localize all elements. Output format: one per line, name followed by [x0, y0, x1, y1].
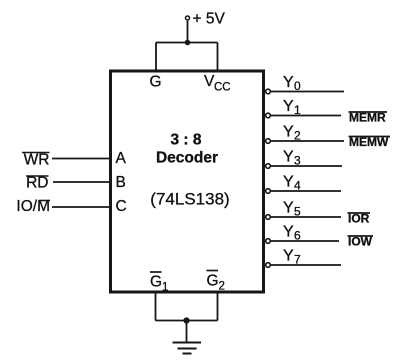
svg-text:Y: Y [283, 224, 294, 241]
output Y6 bubble [266, 239, 271, 244]
svg-text:Decoder: Decoder [156, 150, 218, 167]
wire Y4 [271, 190, 341, 192]
output Y0 bubble [266, 89, 271, 94]
svg-text:Y: Y [283, 248, 294, 265]
svg-text:+ 5V: + 5V [193, 11, 226, 28]
wire supply terminal to junction [187, 21, 189, 43]
svg-text:WR: WR [24, 152, 50, 169]
wire rail to pin VCC [217, 43, 219, 72]
wire horizontal supply rail [156, 42, 218, 44]
wire Y6 [271, 240, 339, 242]
svg-text:0: 0 [294, 79, 301, 93]
wire bottom rail [156, 320, 218, 322]
svg-text:G: G [207, 273, 219, 290]
svg-text:3: 3 [294, 154, 301, 168]
wire Y2 [271, 140, 344, 142]
+5V supply terminal [186, 16, 190, 20]
ground symbol [173, 343, 202, 354]
svg-text:A: A [116, 150, 127, 167]
wire IO/M to pin C [52, 206, 109, 208]
svg-text:3 : 8: 3 : 8 [170, 132, 201, 149]
wire rail to pin G [155, 43, 157, 72]
svg-text:6: 6 [294, 229, 301, 243]
junction dot supply [185, 40, 191, 46]
svg-text:Y: Y [283, 124, 294, 141]
svg-text:4: 4 [294, 179, 301, 193]
svg-text:CC: CC [214, 82, 231, 94]
wire RD to pin B [53, 181, 109, 183]
svg-text:RD: RD [26, 175, 48, 192]
output Y5 bubble [266, 215, 271, 220]
svg-text:Y: Y [283, 174, 294, 191]
svg-text:1: 1 [162, 282, 168, 294]
svg-text:7: 7 [294, 253, 301, 267]
wire Y7 [271, 264, 341, 266]
svg-text:1: 1 [294, 103, 301, 117]
output Y7 bubble [266, 263, 271, 268]
svg-text:Y: Y [283, 98, 294, 115]
svg-text:Y: Y [283, 200, 294, 217]
svg-text:C: C [116, 198, 127, 215]
output Y3 bubble [266, 164, 271, 169]
wire G1 stub down [155, 293, 157, 321]
svg-text:G: G [150, 74, 162, 91]
output Y4 bubble [266, 189, 271, 194]
junction dot ground [183, 317, 189, 323]
svg-text:5: 5 [294, 205, 301, 219]
svg-text:(74LS138): (74LS138) [150, 190, 229, 209]
wire Y1 [271, 115, 341, 117]
wire WR to pin A [52, 158, 109, 160]
wire Y5 [271, 216, 341, 218]
svg-text:2: 2 [219, 281, 225, 293]
wire Y0 [271, 91, 344, 93]
svg-text:B: B [116, 174, 126, 191]
svg-text:G: G [150, 274, 162, 291]
output Y2 bubble [266, 139, 271, 144]
wire G2 stub down [217, 293, 219, 321]
svg-text:Y: Y [283, 149, 294, 166]
wire Y3 [271, 165, 342, 167]
wire junction to ground [186, 321, 188, 343]
decoder IC U1 74LS138 body [111, 71, 264, 292]
svg-text:2: 2 [294, 129, 301, 143]
svg-text:Y: Y [283, 74, 294, 91]
output Y1 bubble [266, 113, 271, 118]
